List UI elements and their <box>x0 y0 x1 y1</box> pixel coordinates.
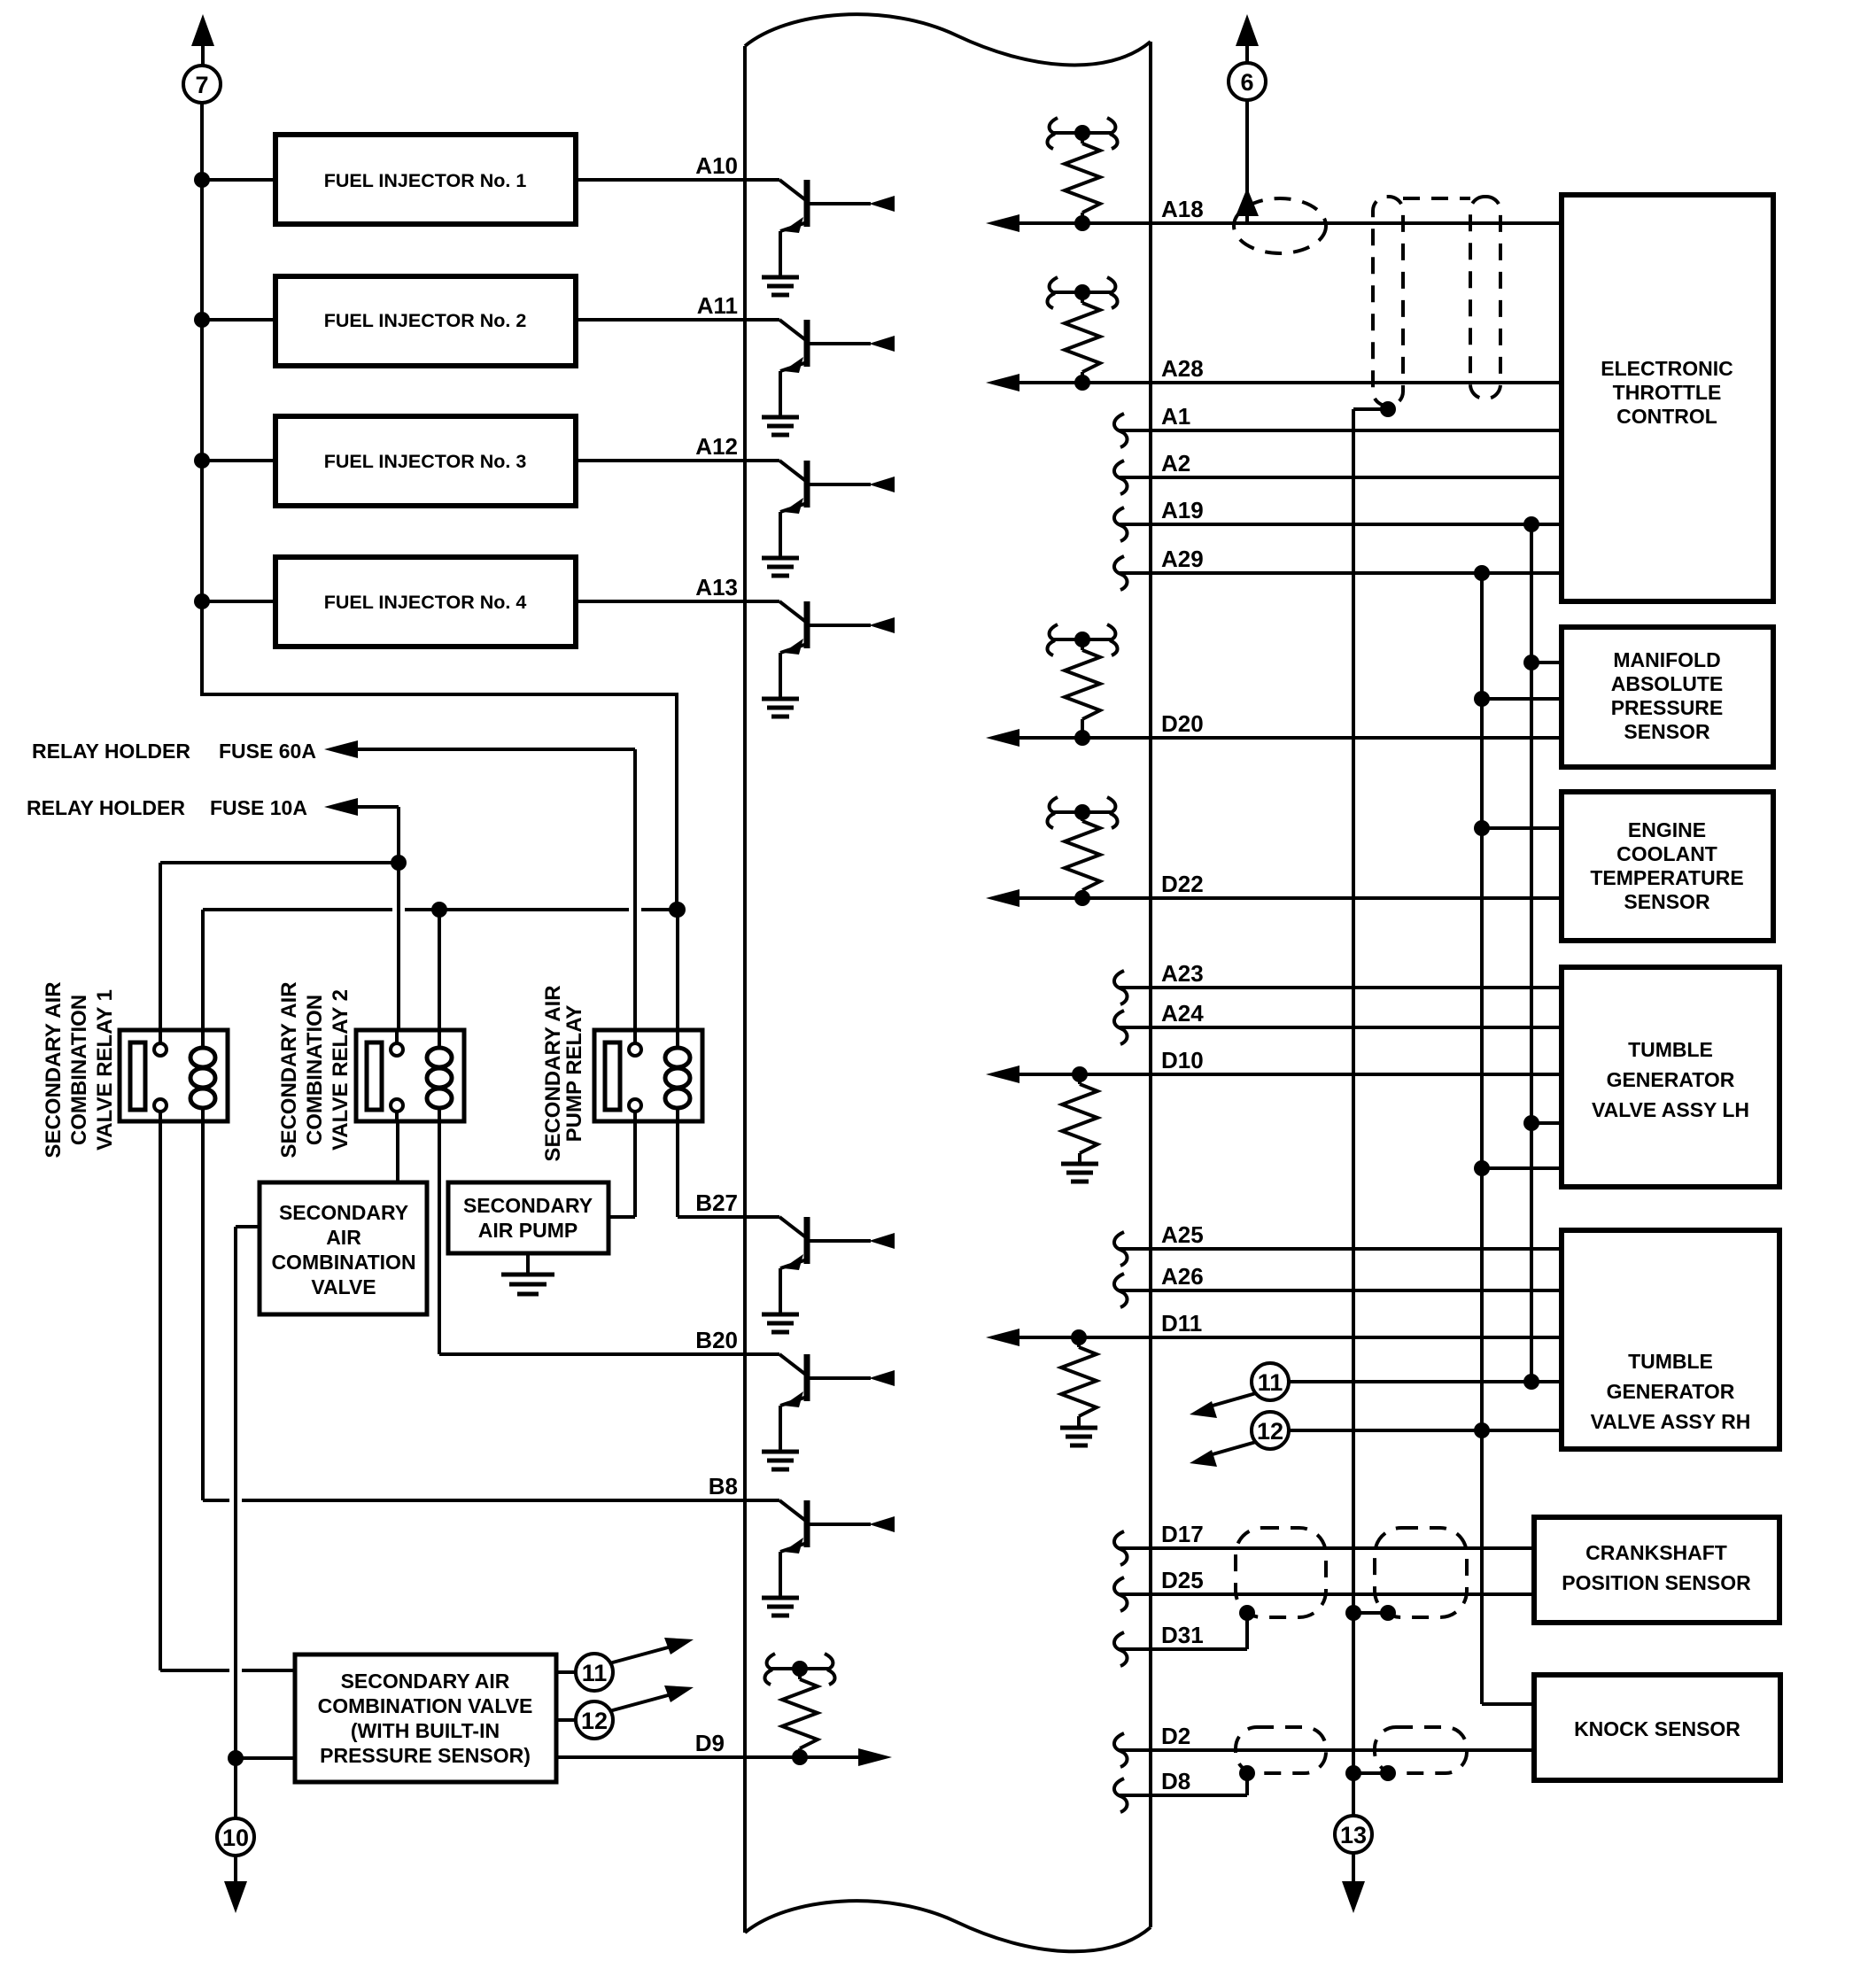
svg-text:KNOCK SENSOR: KNOCK SENSOR <box>1574 1717 1740 1740</box>
svg-text:A13: A13 <box>695 574 738 601</box>
svg-text:MANIFOLD: MANIFOLD <box>1613 648 1720 671</box>
svg-text:COMBINATION: COMBINATION <box>67 995 91 1145</box>
svg-text:RELAY HOLDER: RELAY HOLDER <box>32 740 190 763</box>
svg-text:D17: D17 <box>1161 1521 1204 1547</box>
svg-text:FUEL INJECTOR No. 1: FUEL INJECTOR No. 1 <box>324 170 527 191</box>
svg-text:ENGINE: ENGINE <box>1628 818 1706 841</box>
svg-text:ABSOLUTE: ABSOLUTE <box>1611 672 1724 695</box>
svg-text:PUMP RELAY: PUMP RELAY <box>562 1005 586 1143</box>
svg-text:A23: A23 <box>1161 960 1204 987</box>
svg-text:THROTTLE: THROTTLE <box>1613 381 1722 404</box>
svg-text:SECONDARY: SECONDARY <box>463 1194 593 1217</box>
svg-text:TEMPERATURE: TEMPERATURE <box>1590 866 1743 889</box>
svg-text:PRESSURE SENSOR): PRESSURE SENSOR) <box>320 1744 531 1767</box>
svg-text:FUSE 60A: FUSE 60A <box>219 740 316 763</box>
svg-text:TUMBLE: TUMBLE <box>1628 1350 1713 1373</box>
svg-text:FUEL INJECTOR No. 3: FUEL INJECTOR No. 3 <box>324 451 527 472</box>
svg-text:AIR PUMP: AIR PUMP <box>478 1219 578 1242</box>
svg-text:11: 11 <box>582 1660 608 1686</box>
svg-text:A28: A28 <box>1161 355 1204 382</box>
svg-text:A11: A11 <box>697 292 738 319</box>
svg-text:D31: D31 <box>1161 1622 1204 1648</box>
svg-text:SECONDARY AIR: SECONDARY AIR <box>42 981 66 1158</box>
svg-text:SECONDARY AIR: SECONDARY AIR <box>541 985 565 1161</box>
svg-text:A12: A12 <box>695 433 738 460</box>
svg-text:D2: D2 <box>1161 1723 1190 1749</box>
svg-text:AIR: AIR <box>326 1226 361 1249</box>
svg-text:SECONDARY AIR: SECONDARY AIR <box>341 1670 510 1693</box>
svg-text:FUEL INJECTOR No. 2: FUEL INJECTOR No. 2 <box>324 310 527 331</box>
svg-text:ELECTRONIC: ELECTRONIC <box>1601 357 1733 380</box>
svg-text:VALVE RELAY 1: VALVE RELAY 1 <box>93 989 117 1151</box>
svg-text:D20: D20 <box>1161 710 1204 737</box>
svg-text:12: 12 <box>581 1708 608 1734</box>
svg-text:A10: A10 <box>695 152 738 179</box>
svg-text:GENERATOR: GENERATOR <box>1607 1068 1735 1091</box>
svg-text:SECONDARY: SECONDARY <box>279 1201 408 1224</box>
svg-text:6: 6 <box>1240 69 1253 96</box>
svg-text:D8: D8 <box>1161 1768 1190 1794</box>
svg-text:A18: A18 <box>1161 196 1204 222</box>
svg-text:A1: A1 <box>1161 403 1190 430</box>
svg-text:B8: B8 <box>709 1473 738 1499</box>
svg-text:COOLANT: COOLANT <box>1616 842 1717 865</box>
svg-text:A24: A24 <box>1161 1000 1204 1027</box>
svg-text:GENERATOR: GENERATOR <box>1607 1380 1735 1403</box>
svg-text:CONTROL: CONTROL <box>1616 405 1717 428</box>
svg-text:12: 12 <box>1257 1418 1283 1445</box>
svg-text:PRESSURE: PRESSURE <box>1611 696 1724 719</box>
svg-text:11: 11 <box>1258 1369 1283 1396</box>
svg-text:10: 10 <box>222 1825 249 1851</box>
svg-text:COMBINATION: COMBINATION <box>271 1251 415 1274</box>
svg-text:SECONDARY AIR: SECONDARY AIR <box>277 981 301 1158</box>
svg-text:D25: D25 <box>1161 1567 1204 1593</box>
svg-text:VALVE RELAY 2: VALVE RELAY 2 <box>329 989 353 1151</box>
svg-text:D9: D9 <box>695 1730 725 1756</box>
svg-text:D22: D22 <box>1161 871 1204 897</box>
svg-text:SENSOR: SENSOR <box>1624 890 1710 913</box>
svg-text:13: 13 <box>1340 1822 1367 1848</box>
svg-text:COMBINATION VALVE: COMBINATION VALVE <box>318 1694 533 1717</box>
svg-text:VALVE ASSY RH: VALVE ASSY RH <box>1591 1410 1751 1433</box>
svg-text:D10: D10 <box>1161 1047 1204 1073</box>
svg-text:POSITION SENSOR: POSITION SENSOR <box>1562 1571 1751 1594</box>
svg-text:A19: A19 <box>1161 497 1204 523</box>
svg-text:A2: A2 <box>1161 450 1190 477</box>
svg-text:A26: A26 <box>1161 1263 1204 1290</box>
svg-text:TUMBLE: TUMBLE <box>1628 1038 1713 1061</box>
svg-text:CRANKSHAFT: CRANKSHAFT <box>1585 1541 1727 1564</box>
svg-text:7: 7 <box>195 72 208 98</box>
svg-text:FUSE 10A: FUSE 10A <box>210 796 307 819</box>
svg-text:A29: A29 <box>1161 546 1204 572</box>
svg-text:B20: B20 <box>695 1327 738 1353</box>
svg-text:VALVE: VALVE <box>311 1275 376 1298</box>
svg-text:FUEL INJECTOR No. 4: FUEL INJECTOR No. 4 <box>324 592 527 613</box>
svg-text:COMBINATION: COMBINATION <box>303 995 327 1145</box>
svg-text:A25: A25 <box>1161 1221 1204 1248</box>
svg-text:SENSOR: SENSOR <box>1624 720 1710 743</box>
svg-text:D11: D11 <box>1161 1310 1202 1337</box>
svg-text:B27: B27 <box>695 1189 738 1216</box>
svg-text:RELAY HOLDER: RELAY HOLDER <box>27 796 185 819</box>
svg-text:VALVE ASSY LH: VALVE ASSY LH <box>1592 1098 1749 1121</box>
svg-text:(WITH BUILT-IN: (WITH BUILT-IN <box>351 1719 500 1742</box>
